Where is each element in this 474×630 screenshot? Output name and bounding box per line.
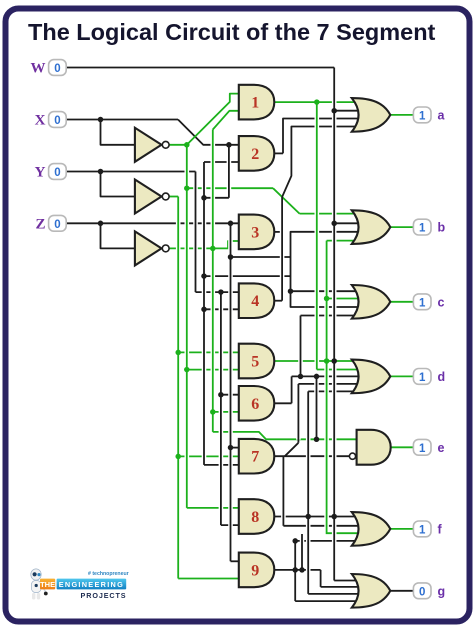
wire AND7 input B row from Ybar bus — [178, 455, 240, 457]
junction Zbar to AND6 — [210, 409, 216, 415]
junction W to OR-f — [331, 514, 337, 520]
wire NAND-e output — [391, 446, 414, 448]
svg-text:d: d — [438, 370, 446, 384]
AND gate 1 — [239, 85, 274, 120]
wire Ybar vertical bus — [176, 197, 181, 579]
wire W input row — [66, 67, 334, 69]
AND gate 4 — [239, 283, 274, 318]
wire AND8 net vertical bus — [306, 391, 311, 594]
junction bus to AND4 input B — [201, 307, 207, 313]
svg-text:1: 1 — [419, 443, 426, 455]
wire AND9 input A row — [231, 560, 241, 562]
junction OR-f input 4 — [292, 538, 298, 544]
wire AND7 output to NAND-e input 2 — [274, 455, 349, 457]
junction AND1 output — [314, 99, 320, 105]
junction X to NOT1 — [98, 117, 104, 123]
wire AND2 input B row — [204, 161, 241, 163]
wire Xbar row toward OR-b — [187, 187, 273, 189]
svg-text:0: 0 — [54, 219, 60, 231]
wire AND7 to OR-d vertical — [296, 384, 301, 443]
wire OR-c input 2 row from green bus — [327, 298, 359, 300]
wire AND1 output to OR-a input 1 — [274, 101, 358, 103]
wire NOT3 output jog to AND3 input B — [213, 241, 241, 248]
wire OR-d input 2 row from AND1 bus — [317, 369, 359, 371]
value box W — [49, 60, 67, 76]
svg-text:9: 9 — [251, 562, 259, 579]
wire AND6 to OR-d vertical — [289, 376, 294, 403]
value box output b — [413, 219, 431, 235]
wire AND4 input A row from Y bus — [196, 291, 241, 293]
value box output f — [413, 521, 431, 537]
wire OR-b input 2 stub from W bus — [334, 222, 358, 224]
svg-text:# technopreneur: # technopreneur — [88, 571, 129, 577]
wire OR-c input 4 row — [301, 315, 359, 317]
inverter NOT1 (X) — [135, 128, 169, 162]
wire OR-g input 1 corner from W bus — [334, 580, 358, 582]
wire AND3 output stub — [274, 231, 282, 233]
junction AND9 output branch B — [299, 567, 305, 573]
wire AND7 input A row from Z bus — [231, 447, 241, 449]
wire Zbar feed to NAND-e input 1 — [213, 432, 358, 439]
AND gate 9 — [239, 553, 274, 588]
AND gate 7 — [239, 439, 274, 474]
wire OR-c input 1 row — [291, 290, 359, 292]
wire Z input row to AND3 input A — [66, 222, 240, 224]
wire AND2 riser to OR-a input 3 — [283, 119, 359, 154]
svg-text:W: W — [31, 61, 46, 77]
wire OR-f output — [390, 528, 413, 530]
wire W vertical bus — [332, 68, 337, 581]
inverter NOT3 (Z) — [135, 231, 169, 265]
wire NOT2 output stub — [169, 196, 178, 198]
logo robot mascot — [31, 569, 48, 600]
svg-text:0: 0 — [419, 586, 425, 598]
junction OR-d input 3 link — [314, 374, 320, 380]
wire link bus U to OR-b input 3 and OR-c input 3 — [291, 232, 359, 307]
junction bus link to OR-b — [201, 273, 207, 279]
wire AND7 input C row — [204, 464, 241, 466]
wire OR-d3 to NAND-e link vertical — [314, 376, 319, 439]
wire Y drop to NOT2 input — [101, 172, 137, 197]
AND gate 6 — [239, 386, 274, 421]
wire Z drop to NOT3 input — [101, 223, 137, 248]
value box output c — [413, 294, 431, 310]
svg-text:THE: THE — [40, 580, 55, 589]
AND gate output e with inverted input — [349, 430, 390, 465]
svg-text:7: 7 — [251, 449, 259, 466]
svg-text:1: 1 — [419, 223, 426, 235]
wire OR-b input 4 corner from green bus — [327, 240, 359, 242]
value box Y — [49, 164, 67, 180]
value box output d — [413, 369, 431, 385]
svg-text:8: 8 — [251, 509, 259, 526]
junction NOT1 output — [184, 142, 190, 148]
svg-text:The Logical Circuit of the 7 S: The Logical Circuit of the 7 Segment — [28, 19, 436, 45]
svg-text:1: 1 — [419, 297, 426, 309]
wire OR-g input 4 row — [295, 600, 358, 602]
wire Y vertical bus — [193, 172, 198, 293]
wire AND9 input B row from Ybar bus — [178, 578, 240, 580]
wire AND6 output row — [274, 402, 291, 404]
svg-text:0: 0 — [54, 167, 60, 179]
wire AND3-AND4 riser vertical — [280, 197, 285, 301]
wire AND1 output vertical bus — [314, 102, 319, 369]
wire OR-c input 4 feed vertical — [298, 316, 303, 377]
OR gate output g — [352, 574, 391, 608]
AND gate 8 — [239, 499, 274, 534]
wire AND5 input B row from Xbar bus — [187, 369, 241, 371]
junction W to OR-d — [331, 358, 337, 364]
wire Xbar diagonal down — [273, 188, 300, 213]
OR gate output f — [352, 512, 391, 546]
svg-text:1: 1 — [419, 111, 426, 123]
junction Ybar to AND5 — [175, 350, 181, 356]
wire OR-b output — [390, 226, 413, 228]
wire AND5 output to OR-d input 1 — [274, 360, 358, 362]
junction X at AND2 input — [226, 142, 232, 148]
value box X — [49, 112, 67, 128]
junction W to OR-b — [331, 221, 337, 227]
wire OR-g input 2 row — [321, 586, 359, 588]
junction green bus to OR-c — [324, 296, 330, 302]
wire AND9 to OR-g2 vertical — [318, 570, 323, 587]
wire X-link row — [204, 197, 229, 199]
value box output e — [413, 439, 431, 455]
svg-text:b: b — [438, 221, 446, 235]
junction Z at AND7 — [228, 445, 234, 451]
wire NOT3 output row — [169, 247, 213, 249]
svg-text:c: c — [438, 295, 445, 309]
wire vertical bus to AND7 input C — [202, 162, 207, 465]
svg-text:0: 0 — [54, 63, 60, 75]
wire OR-f input 4 row — [295, 540, 358, 542]
wire AND8 input A row from Xbar bus — [187, 507, 241, 509]
wire OR-f input 2 row — [283, 525, 358, 527]
wire AND4 output — [274, 300, 282, 302]
wire bus link row B — [204, 275, 291, 277]
wire OR-d input 5 row — [308, 390, 358, 392]
junction AND9 output branch A — [292, 567, 298, 573]
svg-text:1: 1 — [251, 95, 259, 112]
svg-text:PROJECTS: PROJECTS — [81, 591, 127, 600]
inverter NOT2 (Y) — [135, 180, 169, 214]
svg-text:0: 0 — [54, 115, 60, 127]
wire AND8 input B row — [221, 524, 241, 526]
wire Y input row — [66, 171, 195, 173]
wire NOT1 output stub — [169, 144, 187, 146]
junction green bus at OR-d — [324, 358, 330, 364]
svg-text:2: 2 — [251, 146, 259, 163]
wire AND8 output to OR-f input 1 — [274, 516, 358, 518]
svg-text:5: 5 — [251, 354, 259, 371]
wire Xbar vertical bus — [185, 145, 190, 508]
AND gate 3 — [239, 215, 274, 250]
wire OR-f4 to OR-g4 vertical — [293, 541, 298, 601]
wire Z link row A — [231, 256, 291, 258]
junction OR-d input 3 tap — [298, 374, 304, 380]
junction link at NAND-e row — [314, 437, 320, 443]
junction Xbar branch — [184, 185, 190, 191]
svg-text:ENGINEERING: ENGINEERING — [59, 580, 124, 589]
svg-text:3: 3 — [251, 224, 259, 241]
wire riser diagonal to OR-a input 4 — [282, 127, 358, 198]
wire Y branch vertical to AND6 and AND8 — [219, 292, 224, 525]
value box output a — [413, 107, 431, 123]
wire AND7 branch diagonal to OR-d — [285, 443, 299, 456]
logo THE box — [40, 579, 55, 590]
junction link to OR-c input 1 — [288, 288, 294, 294]
svg-text:Z: Z — [35, 216, 45, 232]
wire OR-g input 3 row — [308, 593, 358, 595]
svg-text:g: g — [438, 584, 446, 598]
wire NOT1 output diagonal to AND1 input A — [187, 94, 241, 145]
svg-text:a: a — [438, 108, 446, 122]
wire OR-a input 2 stub from W bus — [334, 110, 358, 112]
wire Zbar vertical bus — [211, 130, 216, 432]
wire Xbar into OR-b input 1 — [300, 213, 359, 215]
junction AND8 output branch — [305, 514, 311, 520]
junction Z link to OR-c — [228, 254, 234, 260]
junction Xbar to AND5 — [184, 367, 190, 373]
wire AND6 input B row from Zbar bus — [213, 411, 241, 413]
svg-text:X: X — [35, 113, 46, 129]
wire OR-a output — [390, 114, 413, 116]
wire AND7 to OR-f vertical — [281, 456, 286, 526]
value box output g — [413, 583, 431, 599]
wire OR-c output — [390, 301, 413, 303]
wire OR-d output — [390, 375, 413, 377]
svg-text:1: 1 — [419, 372, 426, 384]
wire OR-g output — [390, 590, 413, 592]
wire Z vertical bus — [228, 223, 233, 561]
OR gate output d — [352, 360, 391, 394]
svg-text:Y: Y — [35, 165, 46, 181]
logo ENGINEERING box — [57, 579, 127, 590]
wire Zbar diagonal to AND1 input B — [213, 111, 241, 130]
wire AND9 link vertical — [300, 534, 305, 570]
junction Zbar at NOT3 — [210, 246, 216, 252]
OR gate output a — [352, 98, 391, 132]
svg-text:1: 1 — [419, 525, 426, 537]
junction Z to NOT3 — [98, 221, 104, 227]
wire X link vertical — [227, 145, 232, 198]
AND gate 2 — [239, 136, 274, 171]
wire AND6 input A row — [221, 394, 241, 396]
wire X drop to NOT1 input — [101, 120, 137, 145]
svg-text:e: e — [438, 441, 445, 455]
wire OR-d input 3 row — [292, 375, 359, 377]
junction Y branch at AND6 — [218, 392, 224, 398]
junction Y to NOT2 — [98, 169, 104, 175]
value box Z — [49, 215, 67, 231]
svg-text:4: 4 — [251, 293, 259, 310]
svg-text:6: 6 — [251, 396, 259, 413]
junction Z at AND3 — [228, 221, 234, 227]
AND gate 5 — [239, 344, 274, 379]
junction Ybar to AND7 — [175, 454, 181, 460]
wire X input row — [66, 119, 178, 121]
wire AND4 input B row — [204, 308, 241, 310]
junction W to OR-a — [331, 108, 337, 114]
wire green distribution bus b-c-d-f — [327, 241, 359, 534]
wire AND5 input A row from Ybar bus — [178, 351, 240, 353]
wire AND2 output — [274, 152, 283, 154]
wire X diagonal to AND2 input A — [178, 120, 241, 145]
OR gate output b — [352, 210, 391, 244]
OR gate output c — [352, 285, 391, 319]
junction X link — [201, 195, 207, 201]
wire AND9 output row — [274, 569, 320, 571]
wire OR-d input 4 row — [298, 383, 358, 385]
junction Y branch — [218, 289, 224, 295]
